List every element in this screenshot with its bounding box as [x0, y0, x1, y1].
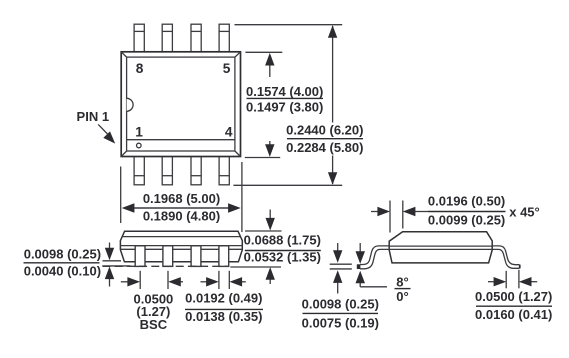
svg-text:4: 4: [225, 125, 233, 140]
svg-text:0.0532 (1.35): 0.0532 (1.35): [244, 250, 321, 265]
svg-text:0.0500 (1.27): 0.0500 (1.27): [475, 289, 552, 304]
svg-text:0.0688 (1.75): 0.0688 (1.75): [244, 232, 321, 247]
svg-text:BSC: BSC: [140, 317, 168, 332]
svg-text:8°: 8°: [396, 275, 408, 290]
svg-text:0.2440 (6.20): 0.2440 (6.20): [286, 123, 363, 138]
svg-text:0.2284 (5.80): 0.2284 (5.80): [286, 140, 363, 155]
svg-text:0.0075 (0.19): 0.0075 (0.19): [302, 315, 379, 330]
svg-text:8: 8: [136, 61, 144, 76]
svg-text:0.0192 (0.49): 0.0192 (0.49): [185, 290, 262, 305]
svg-text:5: 5: [223, 61, 231, 76]
svg-text:0°: 0°: [396, 289, 408, 304]
svg-text:0.1890 (4.80): 0.1890 (4.80): [143, 209, 220, 224]
svg-text:0.0040 (0.10): 0.0040 (0.10): [24, 264, 101, 279]
svg-text:0.1497 (3.80): 0.1497 (3.80): [246, 99, 323, 114]
svg-text:0.1574 (4.00): 0.1574 (4.00): [246, 84, 323, 99]
svg-text:0.0196 (0.50): 0.0196 (0.50): [428, 193, 505, 208]
svg-text:0.0160 (0.41): 0.0160 (0.41): [475, 307, 552, 322]
svg-text:0.0099 (0.25): 0.0099 (0.25): [428, 212, 505, 227]
svg-text:x 45°: x 45°: [509, 204, 540, 219]
svg-text:0.1968 (5.00): 0.1968 (5.00): [143, 191, 220, 206]
svg-text:0.0098 (0.25): 0.0098 (0.25): [302, 297, 379, 312]
svg-text:1: 1: [135, 125, 143, 140]
svg-text:0.0098 (0.25): 0.0098 (0.25): [24, 246, 101, 261]
svg-text:PIN 1: PIN 1: [77, 109, 110, 124]
svg-text:0.0138 (0.35): 0.0138 (0.35): [185, 309, 262, 324]
